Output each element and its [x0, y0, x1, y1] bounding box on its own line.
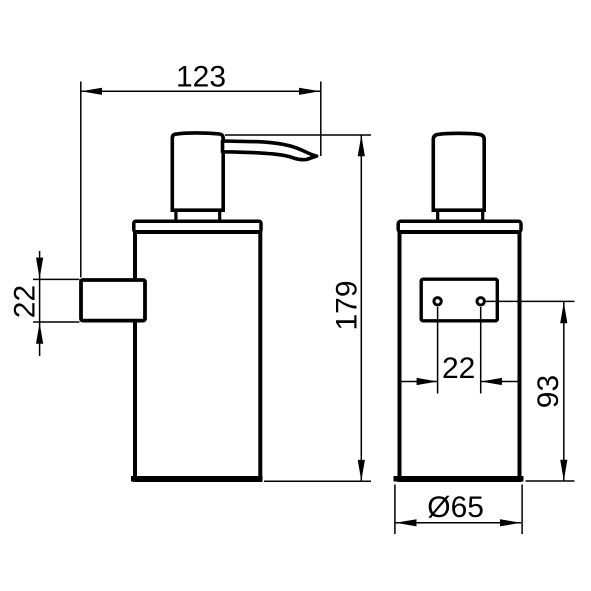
- dim O65: left arrow: [396, 519, 417, 526]
- dim 93: bottom extension line: [526, 480, 575, 482]
- dim 22 left: lower arrow: [36, 323, 43, 344]
- right view: dispenser body: [400, 232, 520, 480]
- dim 22 holes: left arrow pointing right: [417, 378, 438, 385]
- dim O65: left extension line: [394, 485, 396, 535]
- left view: cap/lid: [134, 221, 261, 232]
- svg-text:93: 93: [532, 375, 565, 408]
- dim 22 left: top extension line: [33, 278, 80, 280]
- dim 22 holes: right arrow pointing left: [481, 378, 502, 385]
- svg-text:Ø65: Ø65: [427, 491, 484, 524]
- dim 93: dimension line: [563, 302, 565, 481]
- right view: bottom plate band: [394, 476, 524, 482]
- dim 179: top arrow: [358, 135, 365, 156]
- dim 179: top extension line: [225, 134, 371, 136]
- dim 179: bottom extension line: [264, 480, 371, 482]
- dim 123: left arrow: [81, 88, 102, 95]
- dim 123: left extension line: [80, 82, 82, 278]
- dim 22 holes: left tail line: [401, 381, 438, 383]
- dim 179: dimension line: [360, 135, 362, 481]
- dim 22 left: dimension line: [39, 251, 41, 356]
- dim 93: bottom arrow: [560, 460, 567, 481]
- dim 22 left: upper arrow: [36, 258, 43, 279]
- left view: wall bracket: [81, 280, 145, 321]
- dim 22 holes: left extension line: [437, 307, 439, 394]
- svg-text:179: 179: [330, 280, 363, 330]
- right view: left screw hole: [434, 298, 441, 305]
- left view: neck collar: [174, 211, 177, 222]
- left view: dispenser body: [135, 232, 260, 480]
- right view: neck collar: [436, 211, 439, 222]
- right view: pump neck: [433, 133, 484, 210]
- dim 179: bottom arrow: [358, 460, 365, 481]
- svg-text:22: 22: [8, 285, 41, 318]
- left view: spout: [223, 141, 317, 160]
- dim 22 holes: right extension line: [480, 307, 482, 394]
- right view: right screw hole: [477, 298, 484, 305]
- dim 123: right extension line: [320, 82, 322, 157]
- dim O65: dimension line: [396, 522, 522, 524]
- dim O65: right extension line: [521, 485, 523, 535]
- left view: pump neck: [172, 133, 223, 210]
- dim 123: dimension line: [81, 90, 320, 92]
- svg-text:123: 123: [176, 60, 226, 93]
- dim 93: top arrow: [560, 302, 567, 323]
- dim 93: top extension line through right hole: [481, 300, 575, 302]
- right view: cap/lid: [398, 221, 521, 232]
- dim O65: right arrow: [500, 519, 521, 526]
- dim 22 holes: right tail line: [481, 381, 518, 383]
- right view: mounting plate: [421, 279, 497, 321]
- dim 123: right arrow: [299, 88, 320, 95]
- svg-text:22: 22: [442, 352, 475, 385]
- left view: bottom plate band: [131, 476, 263, 482]
- dim 22 left: bottom extension line: [33, 321, 80, 323]
